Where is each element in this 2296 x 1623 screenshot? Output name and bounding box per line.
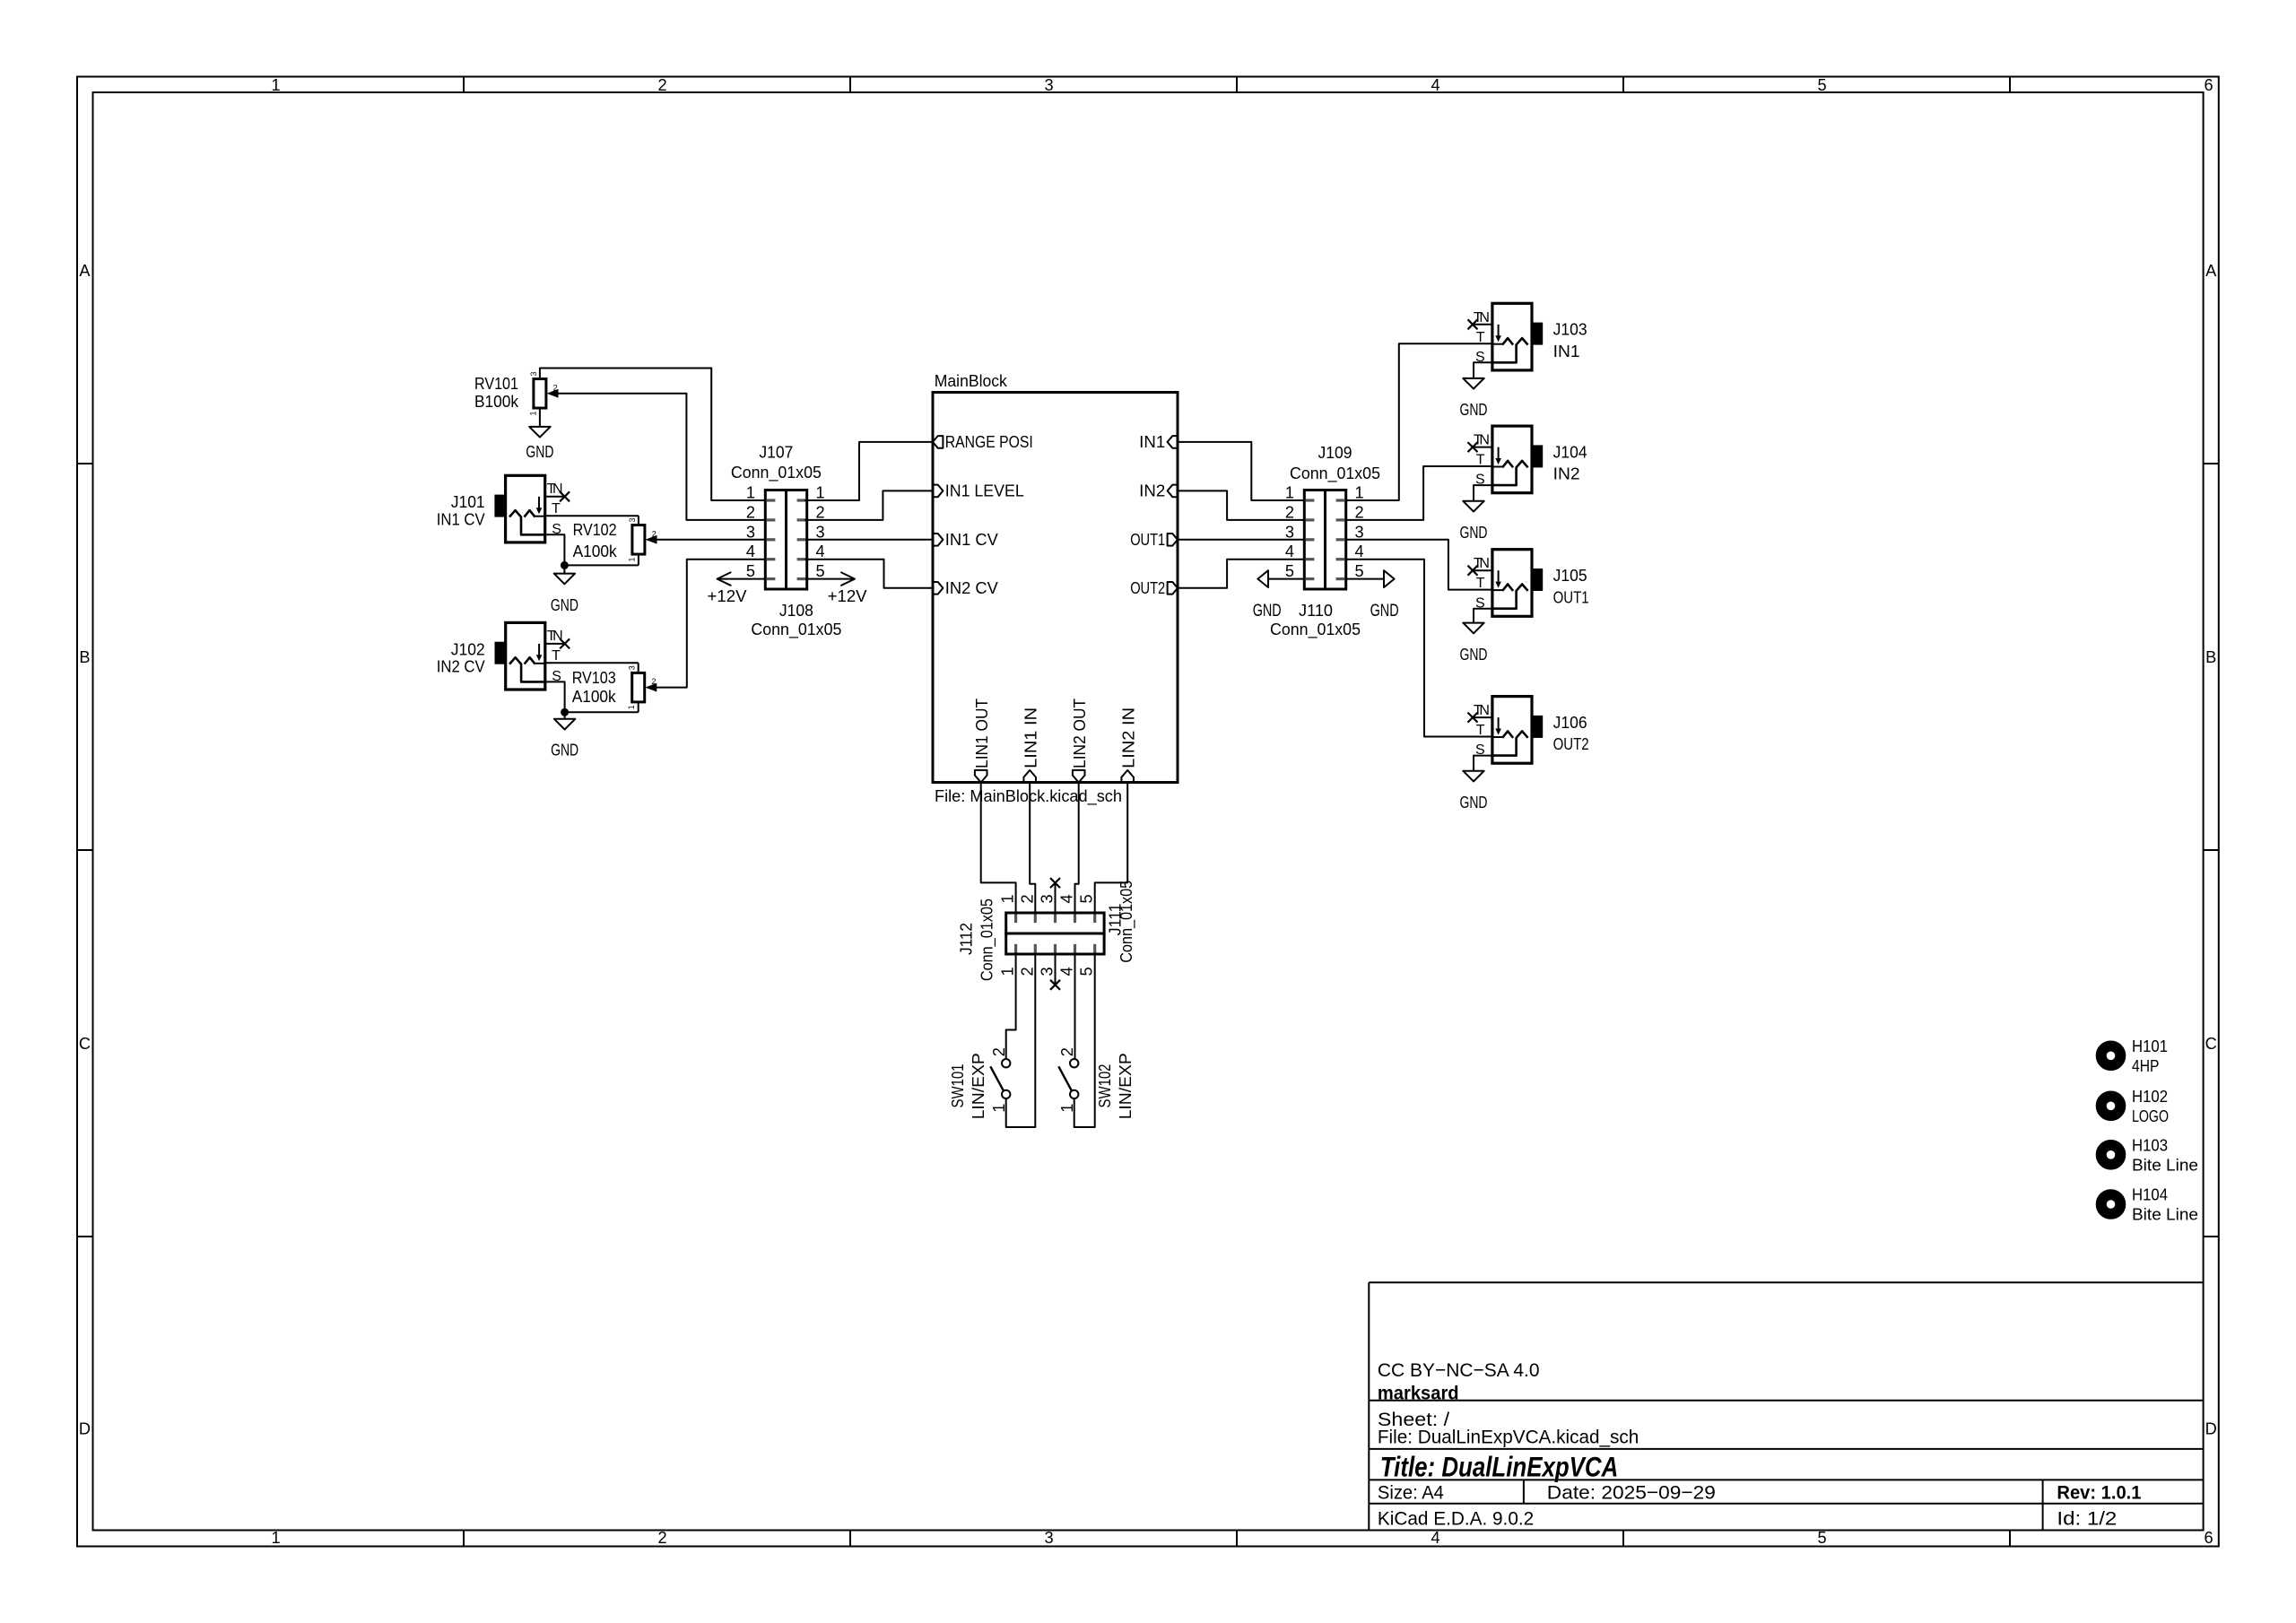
wire MainBlock IN2 to J109 pin2 [1178,490,1304,520]
svg-text:RV103: RV103 [572,669,616,687]
ground symbol below J106 [1460,771,1488,811]
svg-text:5: 5 [1354,562,1363,580]
ground symbol below RV101 [526,427,553,461]
svg-text:6: 6 [2204,1529,2213,1547]
wire RV103 pin1 to ground junction [565,711,639,713]
mounting hole H103 [2101,1136,2198,1174]
connector pair J107 J108 Conn_01x05 [746,484,825,590]
title block [1369,1282,2203,1530]
wire J112 pin5 down [1094,953,1096,1127]
svg-text:H103: H103 [2132,1136,2168,1154]
svg-text:5: 5 [1078,894,1096,903]
svg-text:T: T [552,501,561,516]
ground symbol below J105 [1460,623,1488,664]
svg-text:1: 1 [528,411,537,415]
svg-text:T: T [1476,576,1485,591]
svg-text:Id: 1/2: Id: 1/2 [2057,1508,2117,1530]
power label +12V on J108 pin5 [805,572,867,605]
wire J101 T to RV102 pin3 [545,515,639,516]
connector pair J111 J112 Conn_01x05 (rotated) [999,894,1105,976]
wire J112 pin1 to SW101 pin2 [1006,953,1016,1059]
power label +12V on J107 pin5 [708,572,766,605]
svg-text:1: 1 [999,894,1017,903]
wire J102 S down to GND [545,681,565,718]
no-connect X on J106 TN pin [1468,713,1478,723]
mounting hole H104 [2101,1186,2198,1224]
svg-text:TN: TN [547,629,563,644]
svg-text:IN1 CV: IN1 CV [437,510,486,528]
sheet pin IN1 CV [933,531,999,549]
svg-text:IN2 CV: IN2 CV [945,579,999,597]
hierarchical sheet MainBlock [933,372,1178,806]
svg-text:J107: J107 [759,444,793,462]
svg-text:Title: DualLinExpVCA: Title: DualLinExpVCA [1380,1450,1619,1482]
svg-text:File: DualLinExpVCA.kicad_sch: File: DualLinExpVCA.kicad_sch [1378,1426,1639,1447]
power label GND on J110 pin5 (right arrow) [1346,570,1399,621]
svg-text:2: 2 [553,383,558,392]
svg-text:1: 1 [271,1529,280,1547]
svg-text:3: 3 [1354,523,1363,541]
svg-text:TN: TN [547,482,563,497]
jack J106 OUT2 [1473,697,1543,764]
svg-text:5: 5 [1817,1529,1826,1547]
svg-text:Rev: 1.0.1: Rev: 1.0.1 [2057,1481,2141,1503]
sheet pin LIN2 IN (bottom) [1119,707,1137,783]
wire J103 S to GND [1474,362,1492,378]
svg-text:MainBlock: MainBlock [935,372,1008,390]
svg-text:3: 3 [1039,894,1057,903]
junction J101 S / RV102 pin1 / GND [561,561,569,569]
power label GND on J109 pin5 (left arrow) [1253,570,1305,621]
svg-text:LIN2 OUT: LIN2 OUT [1071,699,1089,768]
svg-text:1: 1 [627,705,636,709]
mounting hole H102 [2101,1088,2169,1125]
svg-text:GND: GND [1253,601,1282,621]
svg-text:SW101: SW101 [949,1064,967,1108]
wire LIN1 IN to J111 pin2 [1030,783,1035,914]
svg-text:5: 5 [1817,76,1826,94]
svg-text:J104: J104 [1553,443,1587,461]
svg-text:4: 4 [1285,542,1294,560]
wire RV101 pin3 to J107 pin1 [540,369,765,501]
svg-text:3: 3 [746,523,755,541]
jack J101 IN1 CV [494,475,564,542]
svg-text:5: 5 [746,562,755,580]
switch SW102 LIN/EXP [1058,1047,1135,1119]
svg-text:J103: J103 [1553,321,1587,339]
ground symbol below J103 [1460,378,1488,419]
wire RV101 wiper to J107 pin2 [559,394,766,520]
svg-text:TN: TN [1474,703,1490,718]
sheet pin LIN2 OUT (bottom) [1071,699,1089,783]
svg-text:2: 2 [1018,967,1036,976]
svg-text:Bite Line: Bite Line [2132,1156,2198,1174]
svg-text:Conn_01x05: Conn_01x05 [1290,464,1380,483]
svg-text:1: 1 [1285,484,1294,502]
wire J101 S down to GND [545,534,565,573]
svg-text:Size: A4: Size: A4 [1378,1481,1444,1503]
svg-text:+12V: +12V [708,587,748,605]
mounting hole H101 [2101,1037,2168,1075]
sheet pin IN1 (right) [1139,433,1178,451]
jack J103 IN1 [1473,303,1543,370]
svg-text:D: D [2205,1420,2217,1438]
no-connect X on J105 TN pin [1468,566,1478,576]
wire LIN2 OUT to J111 pin4 [1075,783,1079,914]
svg-text:1: 1 [815,484,824,502]
wire MainBlock IN1 to J109 pin1 [1178,442,1304,500]
svg-text:T: T [1476,723,1485,738]
potentiometer RV103 A100k [572,663,657,712]
svg-text:GND: GND [1460,794,1488,811]
no-connect X on J103 TN pin [1468,319,1478,329]
wire J112 pin2 down [1034,953,1036,1127]
svg-text:B100k: B100k [474,393,519,411]
wire J108 pin3 to IN1 CV [805,539,933,541]
svg-text:B: B [79,648,90,666]
svg-text:IN2: IN2 [1139,482,1165,499]
svg-text:LIN/EXP: LIN/EXP [970,1053,987,1119]
svg-text:CC BY−NC−SA 4.0: CC BY−NC−SA 4.0 [1378,1359,1540,1381]
sheet pin OUT1 (right) [1130,531,1178,549]
svg-text:GND: GND [1460,524,1488,542]
svg-text:J106: J106 [1553,714,1587,732]
stub J112 pin3 with no-connect [1055,953,1057,984]
svg-text:4: 4 [746,542,755,560]
svg-text:T: T [1476,330,1485,345]
svg-text:C: C [2205,1035,2217,1053]
svg-text:+12V: +12V [828,587,868,605]
svg-text:Conn_01x05: Conn_01x05 [1270,621,1361,639]
no-connect X on J102 TN pin [560,638,570,648]
svg-text:1: 1 [746,484,755,502]
svg-text:IN1 CV: IN1 CV [945,531,999,549]
wire MainBlock OUT2 to J109 pin4 [1178,560,1304,588]
svg-text:4: 4 [1431,1529,1439,1547]
svg-text:OUT1: OUT1 [1130,531,1165,549]
svg-text:GND: GND [1460,646,1488,664]
svg-text:6: 6 [2204,76,2213,94]
svg-text:GND: GND [1370,601,1399,621]
potentiometer RV102 A100k [573,516,657,565]
svg-text:2: 2 [657,1529,666,1547]
wire SW101 pin1 to J112 pin2 [1006,1098,1036,1127]
sheet pin RANGE POSI [933,433,1033,451]
svg-text:LIN/EXP: LIN/EXP [1117,1053,1135,1119]
svg-text:2: 2 [652,529,657,538]
svg-text:Conn_01x05: Conn_01x05 [978,898,997,981]
wire RV102 wiper to J107 pin3 [657,539,766,541]
potentiometer RV101 B100k [474,369,559,427]
svg-text:3: 3 [1039,967,1057,976]
wire J110 pin3 to J105 T [1346,540,1492,590]
jack J105 OUT1 [1473,550,1543,617]
svg-text:RV101: RV101 [474,375,518,393]
svg-text:RANGE POSI: RANGE POSI [945,433,1033,451]
svg-text:OUT1: OUT1 [1553,588,1589,606]
wire J110 pin2 to J104 T [1346,466,1492,520]
svg-text:IN1: IN1 [1139,433,1165,451]
svg-text:B: B [2205,648,2216,666]
svg-text:marksard: marksard [1378,1382,1459,1403]
svg-text:OUT2: OUT2 [1130,579,1165,597]
svg-text:IN1: IN1 [1553,343,1580,360]
svg-text:GND: GND [1460,401,1488,419]
connector pair J109 J110 Conn_01x05 [1285,484,1364,590]
svg-text:J110: J110 [1299,602,1333,620]
svg-text:J101: J101 [451,493,485,511]
wire J105 S to GND [1474,609,1492,623]
svg-text:5: 5 [1285,562,1294,580]
svg-text:GND: GND [551,596,578,614]
svg-text:Conn_01x05: Conn_01x05 [731,464,822,482]
svg-text:LIN1 OUT: LIN1 OUT [973,699,991,768]
svg-text:5: 5 [1078,967,1096,976]
svg-text:3: 3 [1044,76,1053,94]
wire J108 pin2 to IN1 LEVEL [805,490,933,520]
svg-text:LOGO: LOGO [2132,1107,2169,1125]
wire J112 pin4 to SW102 pin2 [1074,953,1076,1059]
svg-text:3: 3 [628,665,637,670]
ground symbol below J102 [551,719,578,759]
svg-text:Date: 2025−09−29: Date: 2025−09−29 [1547,1481,1716,1503]
svg-text:TN: TN [1474,310,1490,325]
svg-text:GND: GND [526,443,553,461]
jack J102 IN2 CV [495,622,565,690]
sheet pin IN1 LEVEL [933,482,1024,499]
stub J111 pin3 with no-connect [1055,882,1057,913]
wire J104 S to GND [1474,485,1492,501]
wire RV102 pin1 to ground junction [564,564,639,566]
svg-text:IN2 CV: IN2 CV [437,658,486,676]
svg-text:J108: J108 [779,602,813,620]
wire J110 pin4 to J106 T [1346,560,1492,737]
svg-text:J112: J112 [958,923,976,955]
ground symbol below J101 [551,574,578,615]
ground symbol below J104 [1460,501,1488,542]
svg-text:H101: H101 [2132,1037,2168,1055]
sheet pin LIN1 OUT (bottom) [973,699,991,783]
svg-text:Bite Line: Bite Line [2132,1206,2198,1224]
wire J108 pin4 to IN2 CV [805,560,933,588]
sheet pin LIN1 IN (bottom) [1022,707,1039,783]
sheet pin IN2 CV [933,579,999,597]
wire RV103 wiper to J107 pin4 [657,560,765,688]
svg-text:RV102: RV102 [573,521,617,539]
no-connect X on J104 TN pin [1468,442,1478,452]
svg-text:2: 2 [652,677,657,686]
svg-text:SW102: SW102 [1096,1064,1114,1108]
svg-text:IN2: IN2 [1553,465,1580,483]
svg-text:D: D [79,1420,91,1438]
wire LIN2 IN to J111 pin5 [1095,783,1128,914]
wire J106 S to GND [1474,756,1492,771]
svg-text:H102: H102 [2132,1088,2168,1106]
svg-text:3: 3 [1044,1529,1053,1547]
svg-text:4: 4 [1431,76,1439,94]
svg-text:3: 3 [628,517,637,522]
svg-text:4: 4 [1058,967,1076,976]
svg-text:TN: TN [1474,433,1490,448]
switch SW101 LIN/EXP [949,1047,1010,1119]
svg-text:LIN2 IN: LIN2 IN [1119,707,1137,768]
wire J102 T to RV103 pin3 [545,662,639,664]
svg-text:GND: GND [551,742,578,759]
svg-text:T: T [552,648,561,664]
svg-text:Conn_01x05: Conn_01x05 [1118,881,1136,963]
svg-text:LIN1 IN: LIN1 IN [1022,707,1039,768]
svg-text:1: 1 [271,76,280,94]
svg-text:3: 3 [1285,523,1294,541]
svg-text:2: 2 [746,503,755,521]
svg-text:File: MainBlock.kicad_sch: File: MainBlock.kicad_sch [935,787,1122,806]
svg-text:H104: H104 [2132,1186,2168,1204]
svg-text:J105: J105 [1553,567,1587,585]
svg-text:2: 2 [1058,1047,1076,1056]
svg-text:3: 3 [815,523,824,541]
svg-text:4: 4 [1354,542,1363,560]
svg-text:KiCad E.D.A. 9.0.2: KiCad E.D.A. 9.0.2 [1378,1508,1534,1530]
svg-text:Conn_01x05: Conn_01x05 [751,621,841,639]
svg-text:2: 2 [990,1047,1008,1056]
svg-text:5: 5 [815,562,824,580]
svg-text:2: 2 [815,503,824,521]
svg-text:C: C [79,1035,91,1053]
jack J104 IN2 [1473,426,1543,493]
svg-text:A: A [79,262,91,280]
svg-text:IN1 LEVEL: IN1 LEVEL [945,482,1024,499]
junction J102 S / RV103 pin1 / GND [561,708,569,716]
wire SW102 pin1 to J112 pin5 [1074,1098,1095,1127]
svg-text:1: 1 [627,557,636,561]
svg-text:2: 2 [1285,503,1294,521]
svg-text:4HP: 4HP [2132,1057,2159,1075]
svg-text:A: A [2205,262,2217,280]
sheet pin IN2 (right) [1139,482,1178,499]
svg-text:1: 1 [1354,484,1363,502]
sheet pin OUT2 (right) [1130,579,1178,597]
svg-text:4: 4 [1058,894,1076,903]
svg-text:2: 2 [1354,503,1363,521]
wire J110 pin1 to J103 T [1346,343,1492,500]
no-connect X on J101 TN pin [560,491,570,501]
svg-text:3: 3 [529,371,538,376]
wire MainBlock OUT1 to J109 pin3 [1178,539,1304,541]
svg-text:4: 4 [815,542,824,560]
svg-text:A100k: A100k [572,688,617,706]
svg-text:J102: J102 [451,640,485,658]
svg-text:OUT2: OUT2 [1553,735,1589,753]
svg-text:T: T [1476,453,1485,468]
svg-text:J109: J109 [1318,444,1352,462]
svg-text:2: 2 [1018,894,1036,903]
svg-text:1: 1 [999,967,1017,976]
wire LIN1 OUT to J111 pin1 [981,783,1016,914]
svg-text:TN: TN [1474,556,1490,571]
svg-text:2: 2 [657,76,666,94]
svg-text:A100k: A100k [573,542,618,560]
wire J108 pin1 to RANGE POSI [805,442,933,500]
